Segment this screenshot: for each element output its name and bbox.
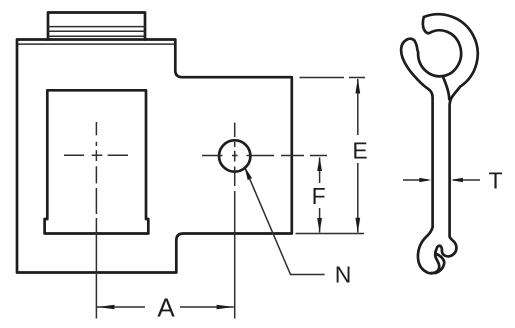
svg-text:T: T: [488, 167, 502, 193]
svg-text:N: N: [335, 261, 352, 287]
hole horizontal centerline: [202, 155, 327, 157]
dimension F line: [319, 158, 321, 233]
svg-text:F: F: [312, 183, 326, 209]
boss flange lines: [48, 27, 145, 37]
svg-text:E: E: [352, 138, 367, 164]
hole vertical centerline: [234, 123, 236, 319]
top face line: [18, 43, 175, 45]
body outline: [17, 40, 292, 273]
window opening: [45, 90, 149, 233]
dimension E bottom arrowhead: [355, 218, 360, 233]
dimension T right arrow: [453, 179, 480, 181]
dimension F bottom arrowhead: [317, 218, 322, 233]
inner circle to stem right branch: [443, 77, 449, 99]
dimension A line: [97, 306, 234, 308]
hole circle: [219, 140, 250, 171]
extension line top step E: [300, 77, 366, 79]
hook eye inner circle and tab inner edge: [414, 30, 461, 76]
boss: [48, 13, 145, 40]
leader line N: [244, 166, 324, 274]
dimension E top arrowhead: [355, 79, 360, 94]
hook eye end cap: [423, 17, 430, 33]
dimension F top arrowhead: [317, 157, 322, 171]
svg-text:A: A: [157, 293, 175, 323]
extension line bottom step: [296, 233, 365, 235]
dimension A right arrowhead: [217, 305, 234, 310]
window horizontal centerline: [64, 154, 128, 156]
hook eye outer arc and stem right side and bottom hook tip: [424, 14, 478, 273]
dimension T left arrow: [403, 179, 428, 181]
foot inner J curve: [435, 254, 444, 273]
dimension A left arrowhead: [97, 305, 114, 310]
leader N arrowhead: [244, 166, 252, 180]
window vertical centerline: [95, 122, 97, 319]
hook tab outer edge, stem left side, foot curl: [401, 39, 436, 274]
dimension E line: [357, 79, 359, 233]
